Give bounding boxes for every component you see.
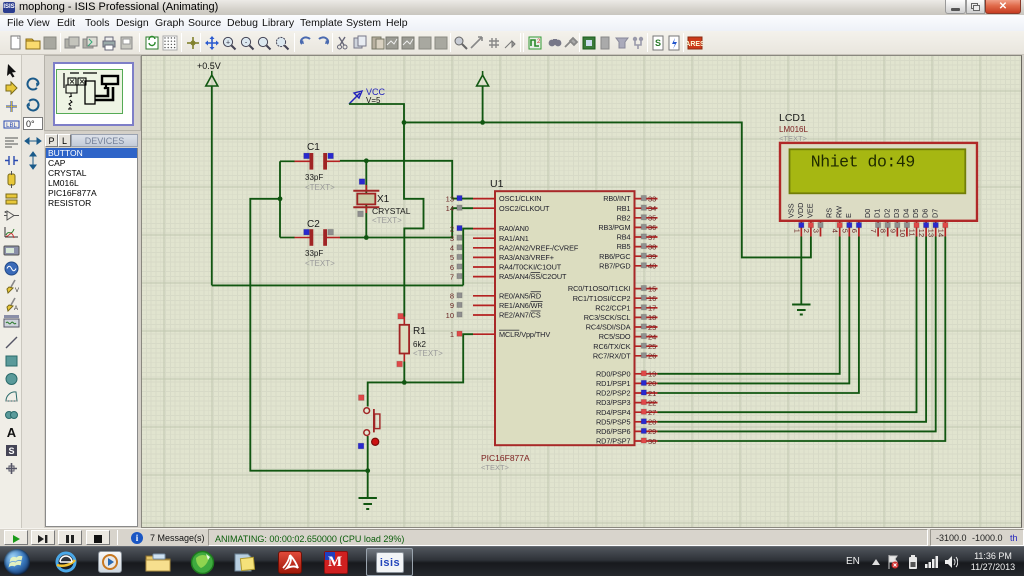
svg-text:35: 35 [648, 214, 656, 223]
U1 pin 30 (RD7/PSP7) [596, 437, 657, 446]
svg-text:RC5/SDO: RC5/SDO [599, 332, 631, 341]
wire gnd branch left [250, 199, 367, 471]
power terminal (top right) [477, 71, 489, 86]
U1 pin 20 (RD1/PSP1) [596, 379, 657, 388]
svg-text:VDD: VDD [796, 203, 805, 218]
taskbar [0, 546, 1024, 576]
svg-text:RC4/SDI/SDA: RC4/SDI/SDA [586, 323, 631, 332]
LCD pin 4 RS [825, 208, 843, 237]
svg-text:R1: R1 [413, 326, 426, 337]
U1 pin 40 (RB7/PGD) [599, 261, 657, 270]
svg-text:MCLR/Vpp/THV: MCLR/Vpp/THV [499, 330, 550, 339]
svg-text:14: 14 [446, 204, 454, 213]
svg-text:29: 29 [648, 427, 656, 436]
svg-text:9: 9 [888, 229, 897, 233]
svg-text:OSC1/CLKIN: OSC1/CLKIN [499, 194, 541, 203]
svg-text:10: 10 [446, 311, 454, 320]
crystal X1 [353, 185, 410, 225]
U1 pin 17 (RC2/CCP1) [595, 303, 657, 312]
svg-text:3: 3 [812, 229, 821, 233]
svg-text:D7: D7 [930, 209, 939, 218]
U1 pin 3 (RA1/AN1) [450, 234, 529, 243]
svg-text:3: 3 [450, 234, 454, 243]
green browser icon [190, 550, 215, 575]
M icon [324, 551, 348, 574]
svg-text:RA0/AN0: RA0/AN0 [499, 224, 529, 233]
svg-text:5: 5 [450, 253, 454, 262]
U1 pin 37 (RB4) [617, 233, 658, 242]
junction gnd [365, 468, 370, 473]
svg-text:RB5: RB5 [617, 242, 631, 251]
svg-text:6k2: 6k2 [413, 340, 426, 349]
svg-text:D3: D3 [892, 209, 901, 218]
junction crystal bottom [364, 235, 369, 240]
wire junction to button top [368, 382, 405, 406]
U1 pin 24 (RC5/SDO) [599, 332, 658, 341]
svg-text:U1: U1 [490, 178, 504, 190]
svg-text:RD0/PSP0: RD0/PSP0 [596, 369, 631, 378]
svg-text:RD4/PSP4: RD4/PSP4 [596, 408, 631, 417]
svg-text:33pF: 33pF [305, 173, 323, 182]
wire terminal2 drop [482, 86, 484, 122]
U1 pin 13 (OSC1/CLKIN) [446, 194, 542, 203]
U1 pin 27 (RD4/PSP4) [596, 408, 657, 417]
svg-text:CRYSTAL: CRYSTAL [372, 206, 411, 216]
overview window panel [44, 55, 141, 131]
svg-text:RD6/PSP6: RD6/PSP6 [596, 427, 631, 436]
wire VCC rail to LCD VDD [404, 122, 811, 257]
U1 pin 14 (OSC2/CLKOUT) [446, 204, 550, 213]
svg-text:18: 18 [648, 313, 656, 322]
button actuator dot [372, 438, 379, 445]
LCD display LCD1 LM016L [779, 112, 977, 221]
U1 pin 16 (RC1/T1OSI/CCP2) [573, 294, 658, 303]
ground (bottom) [359, 498, 377, 509]
LCD pin 13 D6 [921, 209, 939, 237]
LCD pin 11 D4 [902, 209, 920, 237]
svg-text:33pF: 33pF [305, 249, 323, 258]
svg-text:40: 40 [648, 262, 656, 271]
indicator C1 left [304, 153, 310, 159]
svg-text:39: 39 [648, 252, 656, 261]
wire +0.5V to RA0 horizontal [212, 284, 463, 286]
svg-text:20: 20 [648, 379, 656, 388]
wire +0.5V vertical rail [211, 86, 213, 285]
svg-text:28: 28 [648, 418, 656, 427]
svg-text:RD7/PSP7: RD7/PSP7 [596, 437, 631, 446]
LCD pin 10 D3 [892, 209, 910, 237]
svg-text:+: + [226, 40, 230, 47]
WMP [98, 551, 122, 573]
LCD pin 5 RW [834, 206, 852, 237]
svg-text:RC2/CCP1: RC2/CCP1 [595, 303, 630, 312]
svg-text:RD1/PSP1: RD1/PSP1 [596, 379, 631, 388]
indicator crystal bottom [358, 211, 364, 217]
rotate/mirror controls [22, 55, 44, 528]
svg-text:D0: D0 [863, 209, 872, 218]
U1 pin 29 (RD6/PSP6) [596, 427, 657, 436]
svg-text:RC7/RX/DT: RC7/RX/DT [593, 351, 631, 360]
svg-text:RC6/TX/CK: RC6/TX/CK [593, 342, 630, 351]
U1 pin 18 (RC3/SCK/SCL) [584, 313, 658, 322]
junction crystal top [364, 158, 369, 163]
wire LCD D4 to U1 row 412.2 [658, 237, 917, 413]
svg-text:D1: D1 [873, 209, 882, 218]
svg-text:RB2: RB2 [617, 213, 631, 222]
menu bar [0, 15, 1024, 31]
svg-text:38: 38 [648, 242, 656, 251]
indicator button top [359, 395, 365, 401]
ISIS active button [366, 548, 413, 576]
svg-text:9: 9 [450, 301, 454, 310]
svg-text:V: V [15, 288, 19, 294]
svg-text:13: 13 [927, 229, 936, 237]
op-amp? no: microcontroller U1 PIC16F877A body [481, 178, 635, 472]
notes icon [233, 551, 258, 574]
svg-text:RE0/AN5/RD: RE0/AN5/RD [499, 291, 541, 300]
indicator C1 right [328, 153, 334, 159]
svg-text:RB6/PGC: RB6/PGC [599, 252, 630, 261]
explorer folder [145, 552, 171, 572]
schematic canvas [141, 55, 1022, 528]
U1 pin 8 (RE0/AN5/RD) [450, 291, 541, 300]
svg-text:26: 26 [648, 352, 656, 361]
U1 pin 21 (RD2/PSP2) [596, 389, 657, 398]
svg-text:16: 16 [648, 294, 656, 303]
svg-text:RS: RS [825, 208, 834, 218]
wire VCC lead [349, 104, 404, 122]
svg-text:RD3/PSP3: RD3/PSP3 [596, 398, 631, 407]
svg-text:X1: X1 [377, 194, 390, 205]
svg-text:<TEXT>: <TEXT> [413, 349, 443, 358]
svg-text:24: 24 [648, 332, 656, 341]
U1 pin 35 (RB2) [617, 213, 658, 222]
indicator C2 left [304, 229, 310, 235]
svg-text:23: 23 [648, 323, 656, 332]
wire LCD E to U1 row 393.0 [658, 237, 859, 394]
svg-text:4: 4 [831, 229, 840, 233]
junction terminal2/rail [480, 120, 485, 125]
U1 pin 7 (RA5/AN4/SS/C2OUT) [450, 272, 567, 281]
svg-text:12: 12 [917, 229, 926, 237]
svg-text:22: 22 [648, 398, 656, 407]
power terminal +0.5V [197, 61, 221, 86]
svg-text:ARES: ARES [687, 41, 703, 48]
start orb [4, 549, 30, 575]
U1 pin 34 (RB1) [617, 204, 658, 213]
svg-text:RC3/SCK/SCL: RC3/SCK/SCL [584, 313, 631, 322]
svg-text:4: 4 [450, 244, 454, 253]
svg-text:RE1/AN6/WR: RE1/AN6/WR [499, 301, 543, 310]
svg-text:+0.5V: +0.5V [197, 61, 221, 71]
U1 pin 2 (RA0/AN0) [450, 224, 529, 233]
svg-text:<TEXT>: <TEXT> [481, 463, 510, 472]
svg-text:RC0/T1OSO/T1CKI: RC0/T1OSO/T1CKI [568, 284, 631, 293]
svg-text:Nhiet do:49: Nhiet do:49 [811, 153, 915, 172]
svg-text:RW: RW [834, 206, 843, 218]
wire VCC to R1 (jog around text) [404, 122, 424, 316]
window buttons [945, 0, 966, 14]
svg-text:8: 8 [879, 229, 888, 233]
svg-text:LBL: LBL [6, 123, 17, 129]
svg-text:RB4: RB4 [617, 233, 631, 242]
indicator R1 top [398, 313, 404, 319]
svg-text:6: 6 [450, 263, 454, 272]
svg-text:LCD1: LCD1 [779, 112, 806, 124]
svg-text:36: 36 [648, 223, 656, 232]
svg-text:15: 15 [648, 284, 656, 293]
svg-text:34: 34 [648, 204, 656, 213]
svg-text:RB1: RB1 [617, 204, 631, 213]
U1 pin 33 (RB0/INT) [603, 194, 657, 203]
svg-text:<TEXT>: <TEXT> [305, 259, 335, 268]
U1 pin 28 (RD5/PSP5) [596, 417, 657, 426]
svg-text:RB7/PGD: RB7/PGD [599, 261, 630, 270]
indicator C2 right [328, 229, 334, 235]
wire RA0 riser [463, 229, 473, 286]
wire LCD RW to U1 row 383.4 [658, 237, 850, 384]
svg-text:10: 10 [898, 229, 907, 237]
U1 pin 4 (RA2/AN2/VREF-/CVREF) [450, 243, 579, 252]
capacitor C2 [280, 219, 340, 268]
U1 pin 15 (RC0/T1OSO/T1CKI) [568, 284, 658, 293]
ground (below LCD) [792, 305, 810, 315]
wire crystal vertical [365, 161, 367, 238]
wire button bottom to gnd junction [367, 436, 369, 498]
svg-text:RA2/AN2/VREF-/CVREF: RA2/AN2/VREF-/CVREF [499, 243, 579, 252]
LCD pin 2 VDD [796, 203, 814, 237]
svg-text:27: 27 [648, 408, 656, 417]
svg-text:<TEXT>: <TEXT> [305, 183, 335, 192]
svg-text:LM016L: LM016L [779, 125, 808, 134]
svg-text:D5: D5 [911, 209, 920, 218]
svg-text:33: 33 [648, 194, 656, 203]
svg-text:C2: C2 [307, 219, 320, 230]
svg-text:6: 6 [850, 229, 859, 233]
svg-text:RA1/AN1: RA1/AN1 [499, 234, 529, 243]
U1 pin 38 (RB5) [617, 242, 658, 251]
U1 pin 6 (RA4/T0CKI/C1OUT) [450, 263, 562, 272]
junction VCC/R1 [402, 120, 407, 125]
LCD pin 14 D7 [930, 209, 948, 237]
svg-text:PIC16F877A: PIC16F877A [481, 453, 530, 463]
svg-text:RD5/PSP5: RD5/PSP5 [596, 417, 631, 426]
wire LCD D5 to U1 row 421.8 [658, 237, 927, 422]
U1 pin 23 (RC4/SDI/SDA) [586, 323, 658, 332]
junction R1/button/MCLR [402, 380, 407, 385]
svg-text:30: 30 [648, 437, 656, 446]
svg-text:7: 7 [869, 229, 878, 233]
U1 pin 10 (RE2/AN7/CS) [446, 311, 541, 320]
svg-text:1: 1 [792, 229, 801, 233]
power label VCC V=5 [349, 87, 386, 105]
svg-text:1: 1 [450, 330, 454, 339]
LCD pin 8 D1 [873, 209, 891, 237]
svg-text:<TEXT>: <TEXT> [372, 216, 402, 225]
button (push switch) [364, 408, 380, 436]
junction C-left/gnd [278, 196, 283, 201]
status / animation bar [0, 528, 1024, 546]
LCD pin 7 D0 [863, 209, 881, 237]
svg-text:E: E [844, 213, 853, 218]
P L buttons and DEVICES header [44, 133, 141, 148]
U1 pin 19 (RD0/PSP0) [596, 369, 657, 378]
left toolbar strip [0, 55, 22, 528]
svg-text:14: 14 [936, 229, 945, 237]
svg-text:RB0/INT: RB0/INT [603, 194, 631, 203]
wire C1 left to C2 left [279, 161, 281, 237]
U1 pin 39 (RB6/PGC) [599, 252, 657, 261]
LCD pin 3 VEE [806, 203, 824, 236]
wire LCD D7 to U1 row 441.0 [658, 237, 946, 442]
U1 pin 1 (MCLR/Vpp/THV) [450, 330, 551, 339]
toolbar [0, 31, 1024, 55]
svg-text:D6: D6 [921, 209, 930, 218]
wire LCD D6 to U1 row 431.4 [658, 237, 936, 432]
U1 pin 26 (RC7/RX/DT) [593, 351, 658, 360]
indicator crystal top [359, 179, 365, 185]
LCD pin 1 VSS [786, 203, 804, 236]
svg-text:25: 25 [648, 342, 656, 351]
U1 pin 36 (RB3/PGM) [598, 223, 657, 232]
U1 pin 5 (RA3/AN3/VREF+) [450, 253, 554, 262]
svg-text:D2: D2 [882, 209, 891, 218]
svg-text:RA3/AN3/VREF+: RA3/AN3/VREF+ [499, 253, 554, 262]
svg-text:RC1/T1OSI/CCP2: RC1/T1OSI/CCP2 [573, 294, 631, 303]
adobe reader [278, 551, 302, 574]
indicator R1 bottom [397, 361, 403, 367]
svg-text:7: 7 [450, 272, 454, 281]
indicator button bottom [358, 443, 364, 449]
svg-text:D4: D4 [902, 209, 911, 218]
U1 pin 22 (RD3/PSP3) [596, 398, 657, 407]
svg-text:RA4/T0CKI/C1OUT: RA4/T0CKI/C1OUT [499, 263, 562, 272]
U1 pin 9 (RE1/AN6/WR) [450, 301, 543, 310]
wire R1 bottom junction [403, 362, 405, 383]
svg-text:21: 21 [648, 389, 656, 398]
tray [846, 556, 860, 567]
title bar [0, 0, 1024, 15]
svg-text:17: 17 [648, 304, 656, 313]
wire C1 right to OSC1 [340, 161, 473, 199]
svg-text:37: 37 [648, 233, 656, 242]
svg-text:RE2/AN7/CS: RE2/AN7/CS [499, 311, 541, 320]
wire LCD RS to U1 row 373.8 [658, 237, 840, 374]
capacitor C1 [280, 142, 340, 192]
wire LCD VSS to ground [800, 237, 802, 305]
svg-text:VSS: VSS [786, 203, 795, 218]
wire C2 right to OSC2 [340, 208, 473, 237]
wire junction to MCLR [404, 334, 473, 382]
LCD pin 12 D5 [911, 209, 929, 237]
svg-text:RD2/PSP2: RD2/PSP2 [596, 389, 631, 398]
IE [52, 550, 80, 574]
devices list [45, 148, 138, 527]
LCD pin 9 D2 [882, 209, 900, 237]
svg-text:11: 11 [908, 229, 917, 237]
svg-text:19: 19 [648, 370, 656, 379]
svg-text:S: S [655, 38, 661, 48]
svg-text:A: A [14, 306, 18, 312]
svg-text:S: S [8, 446, 14, 456]
svg-text:<TEXT>: <TEXT> [779, 134, 808, 143]
svg-text:2: 2 [802, 229, 811, 233]
svg-text:13: 13 [446, 194, 454, 203]
resistor R1 [400, 317, 444, 362]
svg-text:OSC2/CLKOUT: OSC2/CLKOUT [499, 204, 550, 213]
svg-text:VEE: VEE [806, 203, 815, 218]
svg-text:5: 5 [840, 229, 849, 233]
LCD pin 6 E [844, 213, 862, 237]
svg-text:C1: C1 [307, 142, 320, 153]
U1 pin 25 (RC6/TX/CK) [593, 342, 657, 351]
svg-text:RA5/AN4/SS/C2OUT: RA5/AN4/SS/C2OUT [499, 272, 567, 281]
svg-text:2: 2 [450, 224, 454, 233]
svg-text:RB3/PGM: RB3/PGM [598, 223, 630, 232]
svg-text:8: 8 [450, 292, 454, 301]
